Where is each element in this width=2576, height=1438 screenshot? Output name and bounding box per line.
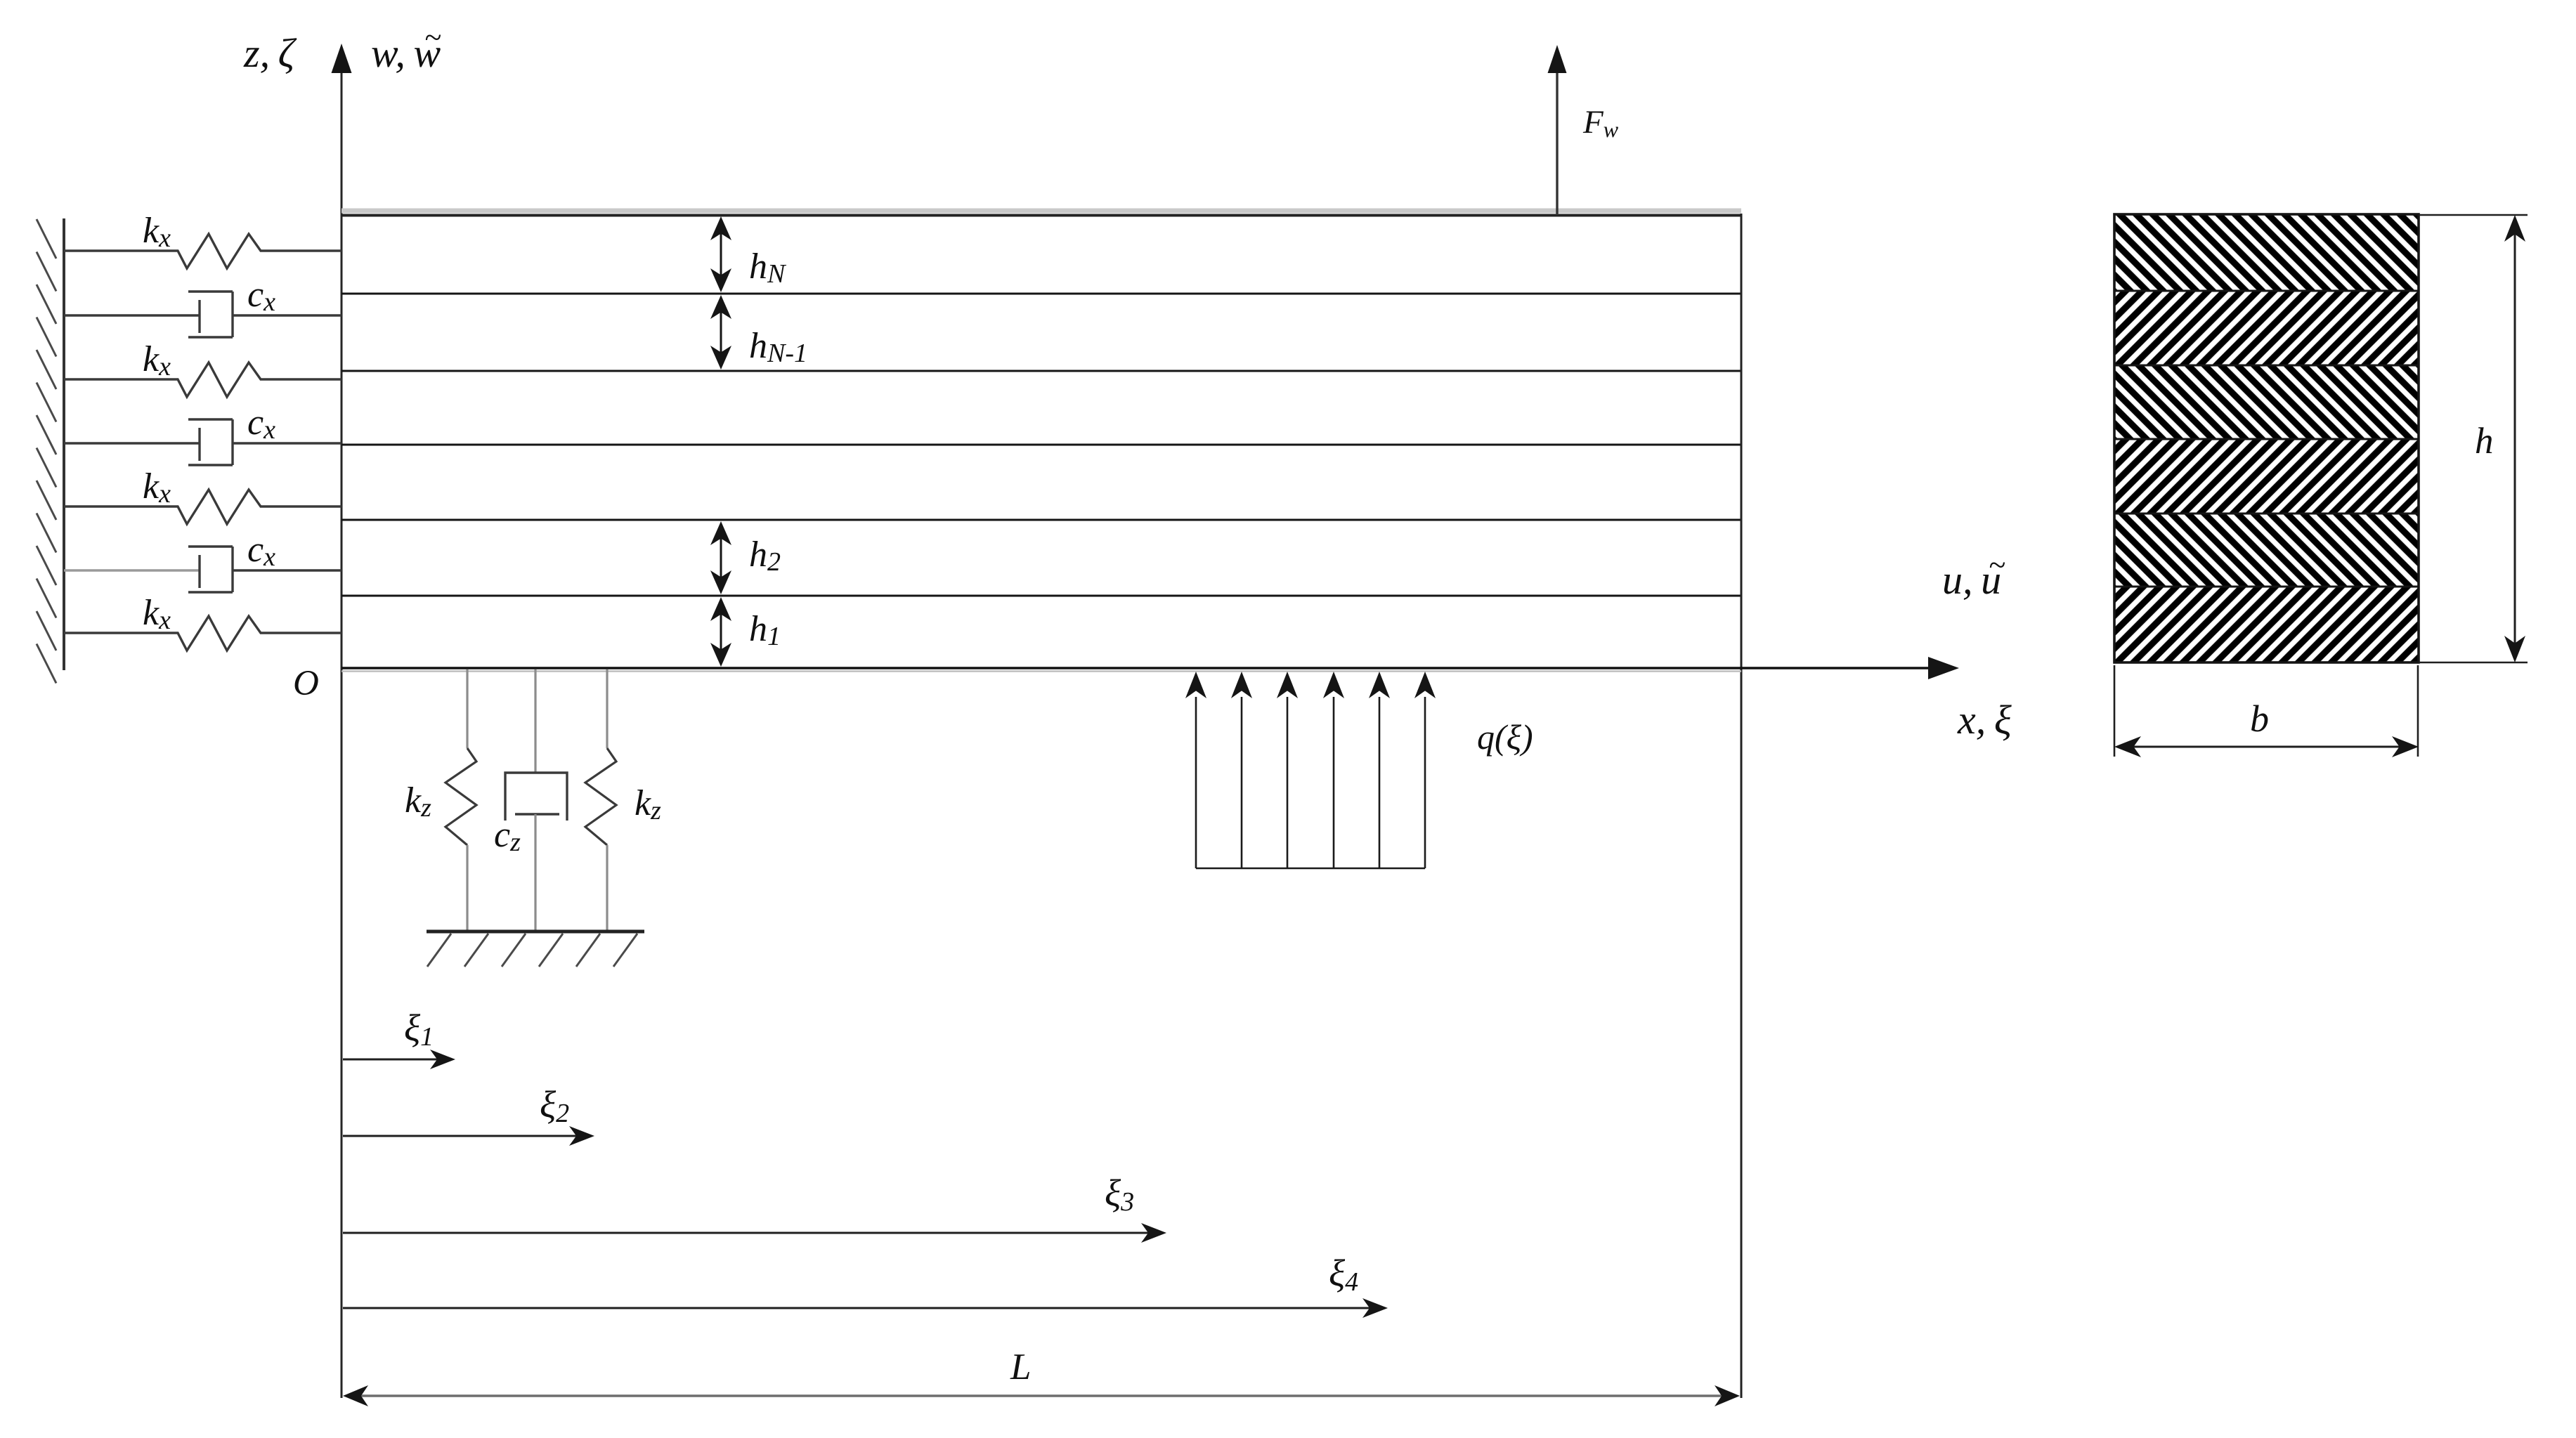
label cx 1 [247, 275, 275, 317]
label kx 4 (bottom) [143, 593, 171, 635]
beam layer boundary 4 (y=740) [341, 519, 1741, 521]
axis xi1 arrow [343, 1050, 455, 1069]
dimension b arrow [2114, 736, 2419, 757]
label xi1 [404, 1007, 434, 1052]
force Fw arrow [1548, 45, 1567, 215]
label Fw [1582, 104, 1619, 142]
cross-section layer boundary lines [2114, 291, 2419, 587]
label kx 2 [143, 339, 171, 381]
svg-text:h: h [2475, 421, 2494, 462]
spring kz (left) [445, 669, 476, 931]
svg-text:x, ξ: x, ξ [1957, 697, 2012, 743]
label xi4 [1329, 1252, 1358, 1297]
label w, w-tilde [371, 20, 441, 76]
beam layer boundary 5 (y=848) [341, 595, 1741, 597]
spring kx 2 [64, 362, 341, 397]
label q(xi) [1477, 717, 1533, 757]
z axis (vertical through O, extends down to L line) [332, 44, 352, 1398]
spring kx 3 [64, 490, 341, 524]
damper cz [505, 669, 567, 931]
cross-section outline [2114, 214, 2419, 662]
label cx 3 [247, 530, 275, 572]
svg-text:z, ζ: z, ζ [243, 30, 297, 76]
cross-section hatched layers [2114, 214, 2419, 662]
label b (section width) [2250, 698, 2269, 740]
spring kz (right) [585, 669, 616, 931]
dimension h1 arrow [710, 597, 731, 667]
axis xi3 arrow [343, 1223, 1166, 1243]
label h1 [749, 609, 781, 651]
x axis (beam bottom, through O) [341, 657, 1959, 679]
beam right edge (extends down to L line) [1741, 214, 1743, 1398]
beam layer boundary 2 (y=528) [341, 370, 1741, 372]
dimension b extension lines [2114, 665, 2418, 757]
svg-text:O: O [293, 664, 319, 703]
beam layer boundary 1 (y=418) [341, 293, 1741, 295]
axis xi2 arrow [343, 1126, 594, 1146]
label kx 3 [143, 466, 171, 509]
beam layer boundary 3 (y=633) [341, 444, 1741, 446]
label xi3 [1105, 1172, 1134, 1217]
svg-text:q(ξ): q(ξ) [1477, 717, 1533, 757]
dimension h arrow [2504, 215, 2525, 662]
spring kx 1 (top) [64, 234, 341, 268]
label hN-1 [749, 326, 807, 368]
label kx 1 (top) [143, 211, 171, 253]
label L [1010, 1347, 1031, 1387]
spring kx 4 (bottom) [64, 616, 341, 651]
dimension hN arrow [710, 216, 731, 292]
label kz (left) [405, 780, 431, 823]
beam top edge (gray+black) [341, 211, 1741, 216]
dimension h extension lines [2419, 215, 2528, 662]
label h2 [749, 535, 781, 577]
damper cx 2 [64, 419, 341, 465]
svg-text:~: ~ [424, 20, 441, 55]
distributed load q(xi) arrows [1185, 672, 1436, 868]
label cx 2 [247, 403, 275, 445]
label h (section height) [2475, 421, 2494, 462]
label xi2 [540, 1083, 569, 1128]
label kz (right) [635, 783, 661, 825]
damper cx 1 [64, 292, 341, 337]
svg-text:b: b [2250, 698, 2269, 740]
label cz [494, 815, 521, 857]
label u, u-tilde [1942, 548, 2005, 603]
label z, zeta [243, 30, 297, 76]
label O [293, 664, 319, 703]
wall (fixed support, left) [37, 218, 64, 684]
dimension L arrow [343, 1385, 1740, 1406]
svg-text:L: L [1010, 1347, 1031, 1387]
ground (foundation hatch) [427, 932, 644, 967]
damper cx 3 [64, 547, 341, 592]
label hN [749, 247, 787, 289]
dimension hN-1 arrow [710, 295, 731, 370]
dimension h2 arrow [710, 521, 731, 594]
label x, xi [1957, 697, 2012, 743]
svg-text:~: ~ [1989, 548, 2005, 582]
axis xi4 arrow [343, 1298, 1388, 1318]
